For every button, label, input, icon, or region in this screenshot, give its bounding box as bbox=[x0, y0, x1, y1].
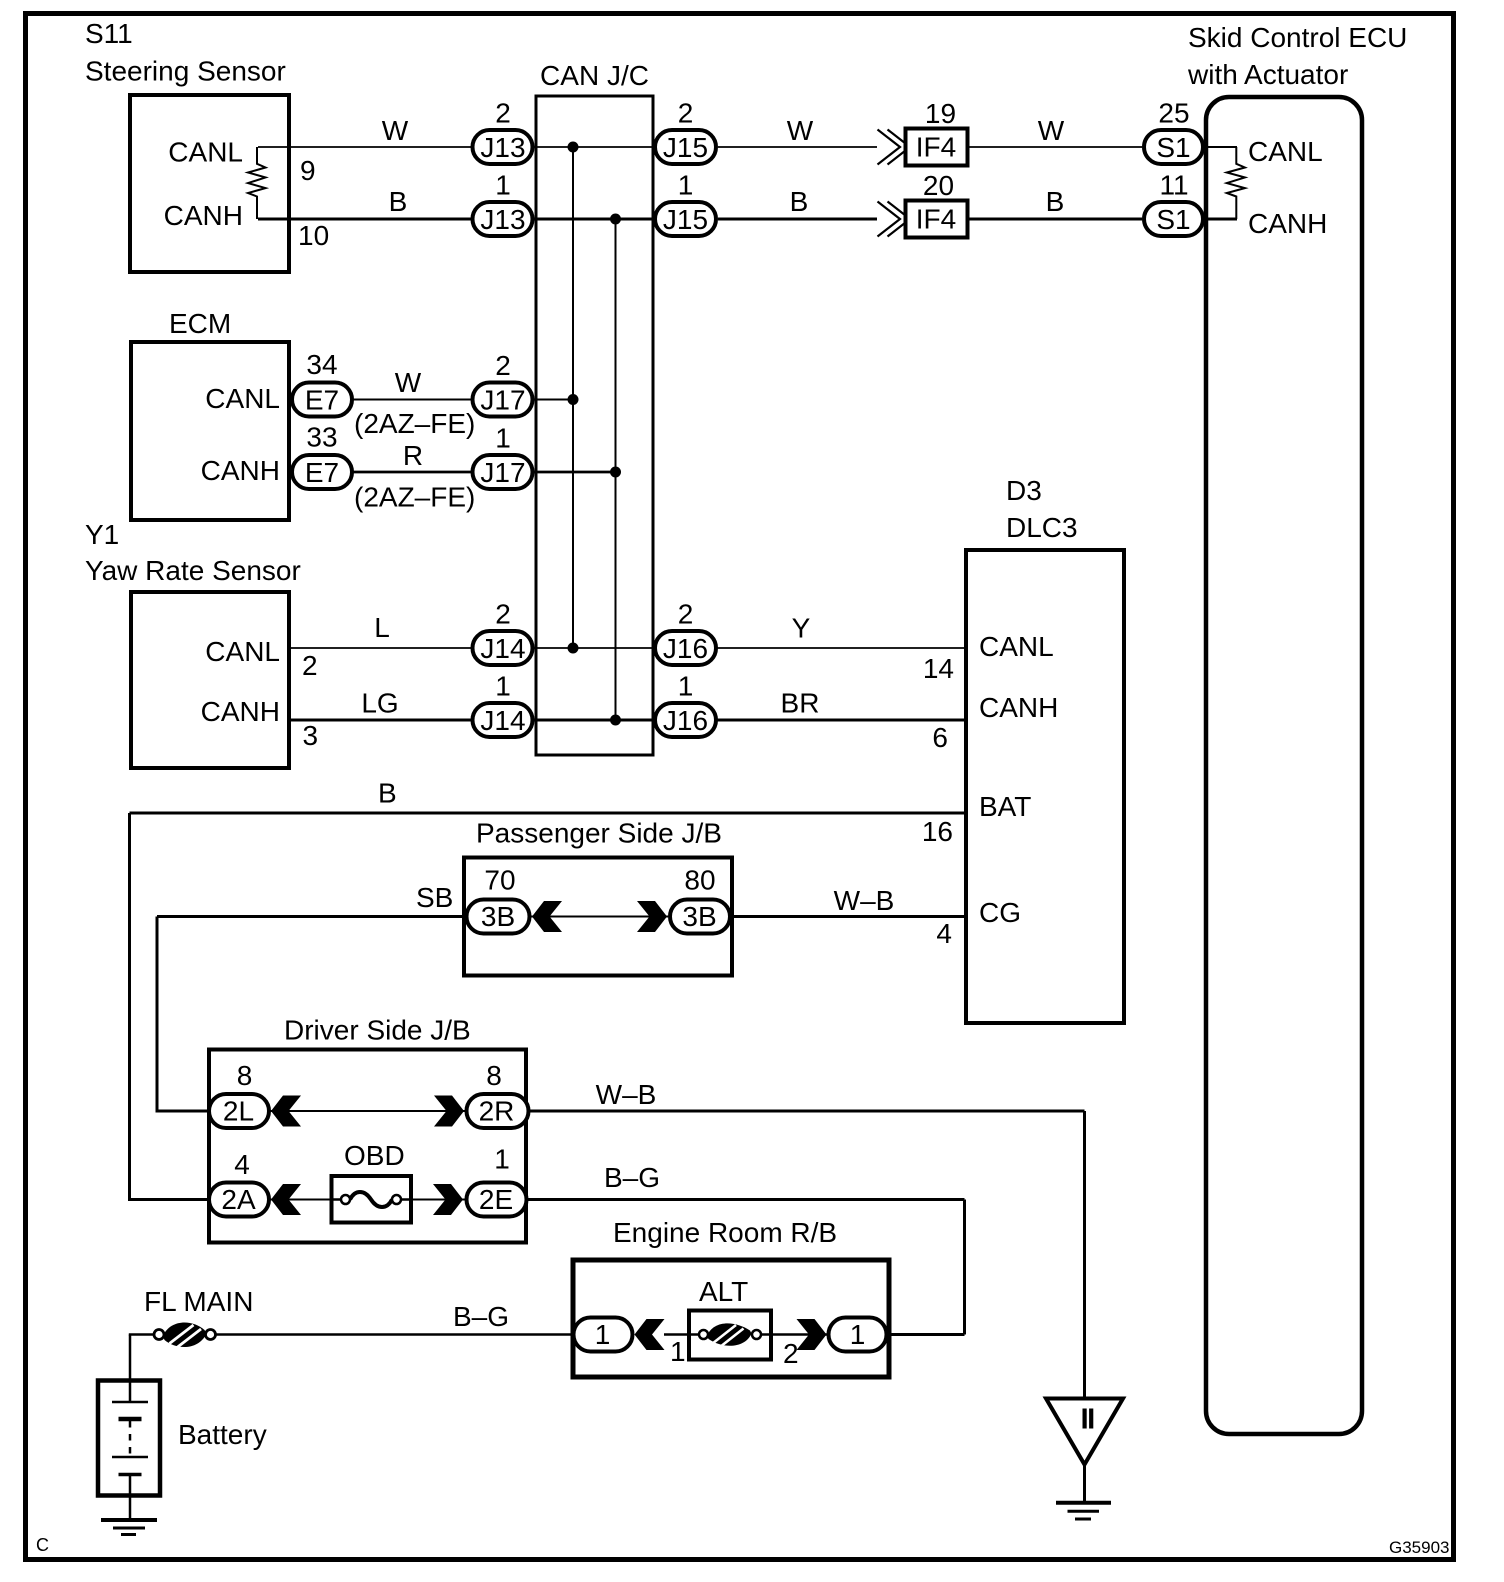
svg-text:Y: Y bbox=[792, 613, 811, 644]
wire SB 2L branch horizontal bbox=[156, 1110, 271, 1113]
wire W-B 2R to ground triangle (row9) bbox=[528, 1110, 1085, 1113]
connector 2L pin 8 bbox=[209, 1060, 269, 1128]
svg-text:J13: J13 bbox=[480, 132, 525, 163]
wire B-G vertical drop bbox=[963, 1200, 966, 1335]
svg-text:CANH: CANH bbox=[1248, 208, 1327, 239]
resistor (terminating, inside ECU) bbox=[1227, 147, 1245, 219]
arrow (left) at engine room connector 1 bbox=[635, 1319, 665, 1350]
svg-text:14: 14 bbox=[923, 653, 954, 684]
svg-text:FL MAIN: FL MAIN bbox=[144, 1286, 253, 1317]
svg-text:ALT: ALT bbox=[699, 1276, 748, 1307]
connector 2R pin 8 bbox=[467, 1060, 529, 1128]
svg-text:J14: J14 bbox=[480, 633, 525, 664]
svg-text:W–B: W–B bbox=[834, 885, 895, 916]
wire B-G 2A branch horizontal bbox=[128, 1198, 270, 1201]
junction node row6 bbox=[610, 715, 621, 726]
wire between 3B connectors bbox=[531, 916, 668, 918]
connector J16 pin 1 bbox=[655, 671, 716, 738]
svg-text:CANL: CANL bbox=[979, 631, 1054, 662]
svg-text:SB: SB bbox=[416, 882, 453, 913]
svg-text:1: 1 bbox=[850, 1319, 866, 1350]
wire W-B vertical to ground bbox=[1083, 1111, 1086, 1399]
svg-text:J15: J15 bbox=[663, 132, 708, 163]
fusible link FL MAIN bbox=[154, 1323, 216, 1348]
svg-text:8: 8 bbox=[237, 1060, 253, 1091]
wire B-G 2E to engine room (row10) bbox=[528, 1198, 965, 1201]
svg-text:ECM: ECM bbox=[169, 308, 231, 339]
driver side J/B box bbox=[209, 1050, 526, 1243]
svg-text:E7: E7 bbox=[305, 385, 339, 416]
connector 1 (engine room left) bbox=[574, 1318, 633, 1352]
connector J13 pin 1 bbox=[473, 170, 533, 237]
svg-text:1: 1 bbox=[595, 1319, 611, 1350]
svg-text:W: W bbox=[382, 115, 409, 146]
svg-text:B–G: B–G bbox=[604, 1162, 660, 1193]
svg-text:2: 2 bbox=[783, 1338, 799, 1369]
arrow (right) at 2R bbox=[434, 1096, 464, 1127]
CAN J/C internal bus wire (CANH side) bbox=[615, 219, 617, 720]
yaw rate sensor Y1 title bbox=[85, 519, 301, 586]
svg-text:J13: J13 bbox=[480, 204, 525, 235]
svg-text:3B: 3B bbox=[682, 901, 716, 932]
fuse ALT box bbox=[689, 1311, 771, 1360]
svg-text:CANL: CANL bbox=[1248, 136, 1323, 167]
svg-text:CANH: CANH bbox=[201, 455, 280, 486]
wire B-G FL MAIN to engine room R/B bbox=[216, 1333, 572, 1336]
arrow (right) at 3B80 bbox=[637, 901, 667, 932]
connector J14 pin 2 bbox=[473, 599, 533, 666]
svg-text:CANL: CANL bbox=[168, 137, 243, 168]
svg-text:S11: S11 bbox=[85, 18, 133, 49]
svg-text:BAT: BAT bbox=[979, 791, 1031, 822]
connector 2E pin 1 bbox=[467, 1144, 527, 1217]
junction node row2 bbox=[610, 214, 621, 225]
svg-text:8: 8 bbox=[486, 1060, 502, 1091]
wire W J15 to IF4 (row1) bbox=[718, 146, 877, 148]
svg-text:B: B bbox=[378, 778, 397, 809]
arrow (right) at engine room connector 1 right bbox=[797, 1319, 827, 1350]
svg-text:Engine Room R/B: Engine Room R/B bbox=[613, 1217, 837, 1248]
wire W steering CANL to CAN J/C (row1) bbox=[258, 146, 653, 148]
svg-text:CG: CG bbox=[979, 897, 1021, 928]
connector 1 (engine room right) bbox=[829, 1318, 887, 1352]
svg-text:Yaw Rate Sensor: Yaw Rate Sensor bbox=[85, 555, 301, 586]
svg-text:J15: J15 bbox=[663, 204, 708, 235]
wire B-G bottom horizontal into engine room bbox=[888, 1333, 965, 1336]
junction node row5 bbox=[568, 643, 579, 654]
wire W ECM CANL to CAN J/C (row3) bbox=[291, 399, 573, 401]
svg-text:2: 2 bbox=[495, 599, 511, 630]
svg-text:B: B bbox=[1046, 186, 1065, 217]
connector 3B pin 80 bbox=[670, 865, 730, 934]
svg-text:J17: J17 bbox=[480, 457, 525, 488]
svg-text:(2AZ–FE): (2AZ–FE) bbox=[354, 408, 475, 439]
svg-text:2: 2 bbox=[678, 599, 694, 630]
wire battery to ground bbox=[129, 1475, 132, 1521]
wire W IF4 to S1 (row1) bbox=[969, 146, 1142, 148]
svg-text:2R: 2R bbox=[479, 1096, 515, 1127]
wire B IF4 to S1 (row2) bbox=[969, 218, 1142, 221]
fuse OBD element bbox=[330, 1192, 414, 1207]
ground (battery) bbox=[101, 1520, 157, 1535]
resistor (terminating, inside steering sensor) bbox=[248, 147, 266, 219]
svg-text:3B: 3B bbox=[481, 901, 515, 932]
connector J17 pin 2 bbox=[473, 350, 533, 417]
svg-text:80: 80 bbox=[684, 865, 715, 896]
svg-text:C: C bbox=[36, 1535, 49, 1555]
svg-text:CANH: CANH bbox=[164, 200, 243, 231]
junction node row1 bbox=[568, 142, 579, 153]
connector J17 pin 1 bbox=[473, 423, 533, 490]
svg-text:G35903: G35903 bbox=[1389, 1538, 1450, 1557]
svg-text:DLC3: DLC3 bbox=[1006, 512, 1078, 543]
connector 3B pin 70 bbox=[467, 865, 530, 934]
svg-text:Driver Side J/B: Driver Side J/B bbox=[284, 1015, 471, 1046]
svg-text:70: 70 bbox=[484, 865, 515, 896]
svg-text:19: 19 bbox=[925, 98, 956, 129]
wire between 2L and 2R bbox=[270, 1110, 465, 1112]
svg-text:Steering Sensor: Steering Sensor bbox=[85, 56, 286, 87]
svg-text:S1: S1 bbox=[1156, 204, 1190, 235]
wire FL MAIN row (row11 left) bbox=[129, 1333, 154, 1336]
wire SB (row8 left) bbox=[157, 915, 465, 918]
svg-text:Skid Control ECU: Skid Control ECU bbox=[1188, 22, 1407, 53]
wire arrow to ALT fuse bbox=[664, 1333, 700, 1336]
connector E7 pin 33 bbox=[292, 422, 352, 490]
svg-text:W: W bbox=[787, 115, 814, 146]
svg-text:with Actuator: with Actuator bbox=[1187, 59, 1348, 90]
svg-text:1: 1 bbox=[670, 1336, 686, 1367]
connector 2A pin 4 bbox=[209, 1149, 269, 1217]
svg-text:J16: J16 bbox=[663, 705, 708, 736]
svg-text:25: 25 bbox=[1158, 98, 1189, 129]
DLC3 title bbox=[1006, 475, 1078, 543]
svg-text:J17: J17 bbox=[480, 385, 525, 416]
svg-text:2E: 2E bbox=[479, 1184, 513, 1215]
wire ALT to right arrow bbox=[771, 1333, 827, 1336]
arrow (left) at 3B70 bbox=[532, 901, 562, 932]
svg-text:CANL: CANL bbox=[205, 383, 280, 414]
connector IF4 pin 19 (in-line, row1) bbox=[878, 98, 968, 166]
battery bbox=[98, 1381, 267, 1496]
wire R ECM CANH to CAN J/C (row4) bbox=[291, 471, 616, 474]
CAN J/C internal bus wire (CANL side) bbox=[572, 147, 574, 648]
svg-text:2: 2 bbox=[495, 98, 511, 129]
skid control ECU with actuator box bbox=[1206, 97, 1362, 1434]
steering sensor S11 title bbox=[85, 18, 286, 87]
svg-text:6: 6 bbox=[932, 722, 948, 753]
connector S1 pin 25 bbox=[1144, 98, 1203, 165]
svg-text:2: 2 bbox=[678, 98, 694, 129]
svg-text:OBD: OBD bbox=[344, 1140, 405, 1171]
svg-text:W–B: W–B bbox=[596, 1079, 657, 1110]
svg-text:IF4: IF4 bbox=[916, 132, 956, 163]
engine room R/B box bbox=[573, 1260, 889, 1377]
svg-text:J14: J14 bbox=[480, 705, 525, 736]
svg-text:B: B bbox=[389, 186, 408, 217]
svg-text:2: 2 bbox=[302, 650, 318, 681]
svg-text:Y1: Y1 bbox=[85, 519, 119, 550]
svg-text:J16: J16 bbox=[663, 633, 708, 664]
svg-text:(2AZ–FE): (2AZ–FE) bbox=[354, 482, 475, 513]
svg-text:2: 2 bbox=[495, 350, 511, 381]
ground triangle II (body ground) bbox=[1046, 1399, 1123, 1465]
svg-text:1: 1 bbox=[678, 671, 694, 702]
wire B J15 to IF4 (row2) bbox=[718, 218, 877, 221]
wire between 2A and 2E bbox=[270, 1199, 465, 1201]
svg-text:LG: LG bbox=[361, 688, 398, 719]
connector S1 pin 11 bbox=[1144, 170, 1203, 237]
svg-text:33: 33 bbox=[306, 422, 337, 453]
wire SB vertical feeder bbox=[156, 917, 159, 1112]
svg-text:CANL: CANL bbox=[205, 636, 280, 667]
wire B vertical feeder bbox=[128, 813, 131, 1200]
fuse OBD box bbox=[332, 1176, 412, 1223]
svg-text:CANH: CANH bbox=[201, 696, 280, 727]
CAN J/C junction block box bbox=[536, 96, 653, 755]
connector E7 pin 34 bbox=[292, 349, 352, 417]
svg-text:Passenger Side J/B: Passenger Side J/B bbox=[476, 818, 722, 849]
junction node row4 bbox=[610, 467, 621, 478]
svg-text:D3: D3 bbox=[1006, 475, 1042, 506]
wire battery to FL MAIN corner bbox=[129, 1335, 132, 1403]
wire L yaw CANL to CAN J/C (row5) bbox=[291, 647, 964, 649]
svg-text:1: 1 bbox=[495, 423, 511, 454]
connector IF4 pin 20 (in-line, row2) bbox=[878, 170, 968, 238]
wire B BAT feed (row7) bbox=[130, 812, 965, 815]
svg-text:3: 3 bbox=[303, 720, 319, 751]
connector J16 pin 2 bbox=[655, 599, 716, 666]
skid control ECU title bbox=[1187, 22, 1407, 90]
connector J15 pin 2 bbox=[655, 98, 716, 165]
svg-text:E7: E7 bbox=[305, 457, 339, 488]
arrow (right) at 2E bbox=[433, 1184, 463, 1215]
ground (body) bbox=[1056, 1503, 1111, 1519]
svg-text:11: 11 bbox=[1159, 170, 1188, 201]
svg-text:W: W bbox=[1038, 115, 1065, 146]
arrow (left) at 2L bbox=[271, 1096, 301, 1127]
svg-text:L: L bbox=[374, 612, 390, 643]
ECU CANH stub wire bbox=[1205, 218, 1237, 221]
DLC3 box bbox=[966, 550, 1124, 1023]
passenger side J/B box bbox=[464, 858, 732, 976]
svg-text:2A: 2A bbox=[221, 1184, 256, 1215]
svg-text:BR: BR bbox=[781, 688, 820, 719]
svg-text:B–G: B–G bbox=[453, 1301, 509, 1332]
ECM box bbox=[131, 342, 289, 520]
yaw rate sensor box bbox=[131, 592, 289, 768]
svg-text:W: W bbox=[395, 367, 422, 398]
svg-text:S1: S1 bbox=[1156, 132, 1190, 163]
steering sensor box bbox=[130, 95, 289, 272]
svg-text:B: B bbox=[790, 186, 809, 217]
svg-text:IF4: IF4 bbox=[916, 204, 956, 235]
svg-text:4: 4 bbox=[234, 1149, 250, 1180]
wire B steering CANH to CAN J/C (row2) bbox=[258, 218, 653, 221]
wire W-B 3B80 to DLC3 CG (row8 right) bbox=[731, 915, 964, 918]
connector J13 pin 2 bbox=[473, 98, 533, 165]
svg-text:4: 4 bbox=[936, 918, 952, 949]
svg-text:CANH: CANH bbox=[979, 692, 1058, 723]
svg-text:Battery: Battery bbox=[178, 1419, 267, 1450]
svg-text:1: 1 bbox=[678, 170, 694, 201]
svg-text:CAN J/C: CAN J/C bbox=[540, 60, 649, 91]
svg-text:10: 10 bbox=[298, 220, 329, 251]
svg-text:16: 16 bbox=[922, 816, 953, 847]
svg-text:R: R bbox=[403, 440, 423, 471]
svg-text:1: 1 bbox=[494, 1144, 510, 1175]
connector J15 pin 1 bbox=[655, 170, 716, 237]
svg-text:1: 1 bbox=[495, 671, 511, 702]
svg-text:1: 1 bbox=[495, 170, 511, 201]
svg-text:34: 34 bbox=[306, 349, 337, 380]
wire LG yaw CANH to CAN J/C (row6) bbox=[291, 719, 964, 722]
fuse ALT element (fusible link) bbox=[689, 1323, 771, 1347]
wire triangle to ground bars bbox=[1083, 1465, 1086, 1503]
junction node row3 bbox=[568, 394, 579, 405]
svg-text:20: 20 bbox=[923, 170, 954, 201]
svg-text:2L: 2L bbox=[223, 1096, 254, 1127]
connector J14 pin 1 bbox=[473, 671, 533, 738]
ECU CANL stub wire bbox=[1205, 146, 1237, 148]
svg-text:9: 9 bbox=[300, 155, 316, 186]
arrow (left) at 2A bbox=[271, 1184, 301, 1215]
